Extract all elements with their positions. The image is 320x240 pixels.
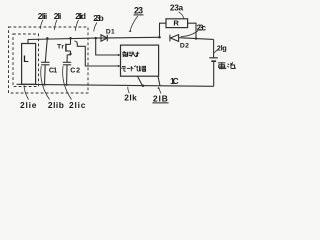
svg-text:2lii: 2lii [38, 11, 47, 21]
svg-text:2li: 2li [54, 11, 62, 21]
svg-text:D1: D1 [106, 29, 115, 36]
svg-text:2lie: 2lie [20, 100, 37, 110]
svg-text:2lic: 2lic [69, 100, 86, 110]
svg-text:23c: 23c [197, 23, 207, 32]
svg-text:23b: 23b [93, 13, 104, 23]
svg-text:2lib: 2lib [48, 100, 64, 110]
svg-text:23: 23 [134, 6, 143, 16]
svg-text:Tr: Tr [57, 44, 64, 51]
svg-text:R: R [173, 18, 179, 27]
svg-text:2lid: 2lid [75, 11, 86, 21]
svg-text:D2: D2 [180, 43, 189, 50]
svg-text:2lk: 2lk [124, 93, 137, 103]
svg-text:L: L [23, 54, 29, 64]
svg-text:C2: C2 [70, 67, 80, 74]
svg-text:1C: 1C [170, 76, 179, 86]
svg-text:2lg: 2lg [217, 43, 227, 52]
svg-text:C1: C1 [49, 67, 57, 74]
svg-text:2IB: 2IB [153, 93, 168, 103]
svg-text:23a: 23a [170, 2, 184, 12]
